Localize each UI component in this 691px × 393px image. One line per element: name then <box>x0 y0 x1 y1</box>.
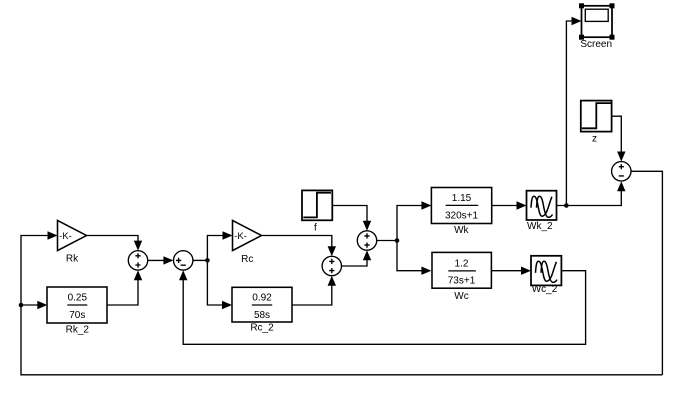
svg-text:Wk: Wk <box>454 225 469 236</box>
svg-text:70s: 70s <box>69 310 85 321</box>
svg-text:Wc_2: Wc_2 <box>532 284 558 295</box>
svg-text:Rk: Rk <box>66 253 79 264</box>
svg-text:Rk_2: Rk_2 <box>66 325 90 336</box>
svg-text:73s+1: 73s+1 <box>448 276 476 287</box>
svg-text:320s+1: 320s+1 <box>445 210 479 221</box>
svg-text:0.25: 0.25 <box>68 293 88 304</box>
svg-text:1.2: 1.2 <box>455 258 469 269</box>
svg-text:f: f <box>314 223 317 234</box>
svg-text:0.92: 0.92 <box>252 293 272 304</box>
svg-text:Wk_2: Wk_2 <box>527 221 553 232</box>
svg-text:z: z <box>592 133 597 144</box>
svg-text:Screen: Screen <box>580 39 612 50</box>
svg-text:1.15: 1.15 <box>452 193 472 204</box>
svg-text:Rc_2: Rc_2 <box>250 323 274 334</box>
svg-text:-K-: -K- <box>59 231 72 242</box>
svg-text:Wc: Wc <box>454 291 468 302</box>
svg-text:Rc: Rc <box>241 254 253 265</box>
svg-text:58s: 58s <box>254 310 270 321</box>
svg-text:-K-: -K- <box>234 231 247 242</box>
